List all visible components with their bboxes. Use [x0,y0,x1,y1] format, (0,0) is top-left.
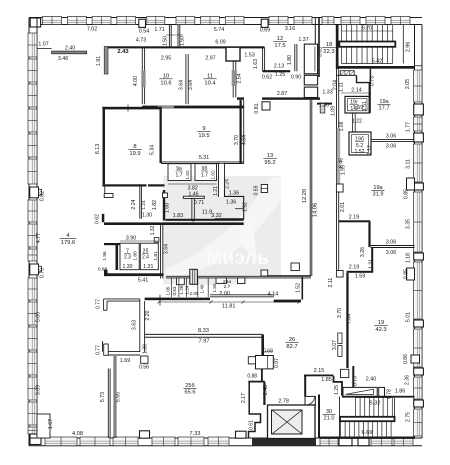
svg-text:2.05: 2.05 [405,79,411,89]
stairwell 18 treads [341,25,343,64]
svg-text:2.48: 2.48 [263,385,269,395]
wall 2.15 y375 [304,375,334,377]
room 1.67 box bottom-left [37,414,50,438]
svg-text:3.69: 3.69 [36,385,42,395]
room 12 interior wall 1.63 vertical [262,48,264,72]
wall A right of room 12 shafts [314,18,316,72]
svg-text:1.71: 1.71 [154,27,164,33]
svg-text:1.83: 1.83 [173,213,184,219]
svg-text:1.85: 1.85 [321,377,332,383]
wall y381 horizontal [248,381,264,383]
svg-text:3.64: 3.64 [179,80,185,90]
double partition 1.50 1.50 below top wall [168,25,170,47]
small vestibule box [341,369,349,377]
room 9 right wall 3.70 4.04 [240,100,242,164]
wall cross tick at x160 [159,295,161,306]
room 13 right wall 12.20 14.06 [309,100,311,276]
svg-text:Миэль: Миэль [206,247,269,269]
stairwell 18 bottom wall [338,66,415,69]
wall 0.81 box below [262,102,270,110]
svg-text:1.7: 1.7 [176,173,183,179]
closet corner notch box [104,194,113,198]
svg-text:1.50: 1.50 [180,36,186,46]
watermark logo swoosh [166,177,281,276]
svg-text:6.70: 6.70 [362,26,372,32]
svg-text:0.85: 0.85 [404,189,410,199]
svg-text:179.6: 179.6 [61,240,76,246]
svg-text:3.35: 3.35 [406,219,412,229]
svg-text:3.06: 3.06 [386,240,397,246]
wall 2.87 below room 12 [262,97,320,99]
top wall pillar 0.69 [261,19,268,27]
svg-text:1.46: 1.46 [188,192,198,198]
svg-text:2.19: 2.19 [349,215,360,221]
dim 2.14 line [341,92,371,94]
svg-text:2.78: 2.78 [278,399,289,405]
svg-text:5.41: 5.41 [138,278,149,284]
vestibule recess 0.73 [336,74,357,76]
door arc box left of room 30 [305,396,315,405]
closet left wall stub below room 8 [104,187,106,198]
svg-text:0.73: 0.73 [369,76,375,86]
svg-text:1.86: 1.86 [395,389,406,395]
corridor bottom wall left thick [145,298,210,301]
svg-text:1.51: 1.51 [362,101,368,111]
svg-text:17.7: 17.7 [379,106,390,112]
svg-text:0.86: 0.86 [403,354,409,364]
left stub to 5.41 wall [104,270,108,276]
svg-text:21.0: 21.0 [324,416,335,422]
svg-text:3.32: 3.32 [211,213,222,219]
svg-text:19.9: 19.9 [129,151,140,157]
corridor bottom wall left jog 0.77 double line [104,298,140,300]
svg-text:82.7: 82.7 [286,344,297,350]
outer right wall band with windows [414,25,416,439]
wall x261.5 y369-381 [261,369,263,382]
left wall pillar notch 0.79 [30,264,39,275]
wall 1.69 horizontal double line [104,351,140,353]
svg-text:0.69: 0.69 [260,28,270,34]
svg-text:1.63: 1.63 [253,59,259,69]
svg-text:5.01: 5.01 [406,312,412,322]
svg-text:31.9: 31.9 [373,192,384,198]
svg-text:1.68: 1.68 [165,203,171,213]
svg-text:1.12: 1.12 [367,145,373,155]
svg-text:1.59: 1.59 [355,274,366,280]
svg-text:1.36: 1.36 [229,191,240,197]
watermark gray background [163,176,281,277]
stairwell 18 left wall [336,25,339,70]
svg-text:0.78: 0.78 [387,389,393,399]
wall below 11.9 y219.5 [166,219,244,221]
svg-text:6.13: 6.13 [95,144,101,154]
wall 1.59 y272 [347,271,374,273]
svg-text:0.81: 0.81 [254,103,260,113]
svg-text:0.71: 0.71 [194,200,205,206]
svg-text:65.6: 65.6 [185,390,196,396]
svg-text:1.30: 1.30 [143,344,149,354]
pillar box at 1.69 wall left end [104,344,109,355]
wall between rooms 10 and 11 [185,54,187,104]
wall 2.20 3.63 vertical double line [139,299,141,352]
bottom wall stair pillar C [339,438,352,446]
svg-text:2.13: 2.13 [274,64,284,70]
svg-text:1.02: 1.02 [210,170,216,180]
svg-text:3.90: 3.90 [126,236,137,242]
svg-text:1.09: 1.09 [331,106,337,116]
lower stairs lower flight treads [340,421,342,436]
svg-text:3.70: 3.70 [337,308,343,318]
svg-text:0.88: 0.88 [247,374,257,380]
room 30 left wall [318,395,320,438]
svg-text:19.5: 19.5 [198,133,209,139]
svg-text:8.33: 8.33 [198,328,209,334]
svg-text:3.46: 3.46 [58,56,68,62]
room 19 left wall 3.70 7.04 [346,273,348,368]
svg-text:3.63: 3.63 [132,320,138,330]
bottom wall stair pillar D [358,438,369,446]
svg-text:10.4: 10.4 [204,80,216,86]
svg-text:2.14: 2.14 [351,88,362,94]
svg-text:2.08: 2.08 [190,291,199,296]
left stub wall above small rooms [104,243,120,245]
svg-text:0.97: 0.97 [274,358,280,368]
square notch on corridor wall [261,270,268,276]
svg-text:6.69: 6.69 [362,430,373,436]
svg-text:3.06: 3.06 [386,144,397,150]
small room 2.4 box [140,243,158,270]
dim line 3.82 with label [168,183,217,185]
step inner line [235,208,244,210]
svg-text:0.73: 0.73 [353,376,359,386]
svg-text:1.52: 1.52 [243,202,249,212]
room 10 left wall [141,48,143,104]
svg-text:3.64: 3.64 [163,244,169,254]
svg-text:1.49: 1.49 [200,284,205,293]
dim line 11.81 [159,301,299,303]
svg-text:1.08: 1.08 [339,121,345,131]
svg-text:7.33: 7.33 [190,431,201,437]
ramp box 2.40 [343,387,377,396]
svg-text:2.11: 2.11 [328,278,334,288]
svg-text:17.5: 17.5 [274,43,285,49]
svg-text:42.3: 42.3 [375,327,386,333]
svg-text:0.83: 0.83 [172,286,177,295]
svg-text:0.68: 0.68 [263,349,273,355]
svg-text:1.30: 1.30 [142,213,152,219]
room 9 bottom wall 5.31 [161,161,244,163]
corridor top wall 4.73 6.09 [106,46,265,48]
top-left corner pillar [30,18,40,27]
svg-text:1.30: 1.30 [319,103,329,109]
outer bottom wall band with windows [29,437,422,439]
svg-text:0.77: 0.77 [96,345,102,355]
right wall protruding pillar box middle [407,268,415,280]
room 25b left double wall [107,369,109,439]
svg-text:1.36: 1.36 [226,200,237,206]
svg-text:0.85: 0.85 [404,269,410,279]
main corridor wall y222.5 [104,222,244,225]
svg-text:1.50: 1.50 [212,283,217,292]
shaft column upper box [304,44,317,74]
svg-text:2.97: 2.97 [205,56,215,62]
svg-text:11.81: 11.81 [222,304,236,310]
room 8 bottom wall 3.72 with door gap [102,184,146,186]
gray wall segment 6.46 [337,128,340,192]
svg-text:1.31: 1.31 [143,264,153,270]
right wall small box near 0.86 [411,355,420,363]
svg-text:3.26: 3.26 [360,247,366,257]
svg-text:4.14: 4.14 [268,291,279,297]
room 26 top wall 7.97 double line [145,333,264,335]
corridor double wall between 19g and 19b [352,113,354,132]
svg-text:1.18: 1.18 [406,253,412,263]
svg-text:1.69: 1.69 [120,358,131,364]
svg-text:2.24: 2.24 [131,199,137,209]
svg-text:0.62: 0.62 [262,75,272,81]
WC small box [248,357,255,364]
svg-text:2.87: 2.87 [277,91,287,97]
svg-text:1.31: 1.31 [369,259,375,269]
svg-text:1.25: 1.25 [275,72,285,78]
left wall of small rooms [116,243,119,270]
room 12 left wall below pillar [232,61,234,98]
wall x305 y376-396 [304,376,306,397]
door jamb protrusion left [177,278,185,285]
svg-text:0.79: 0.79 [40,268,46,278]
svg-text:5.65: 5.65 [116,392,122,402]
svg-text:1.52: 1.52 [355,149,365,155]
svg-text:1.22: 1.22 [352,119,362,125]
partition gray bar 3.46 2.40 [52,51,87,54]
room 11.9 tee wall stem [192,198,194,220]
top wall pillar 0.54 [139,19,146,27]
lower stairs landing rail bar [340,417,395,421]
corridor bottom wall right thin [210,294,274,296]
svg-text:5.74: 5.74 [214,27,224,33]
svg-text:1.07: 1.07 [38,42,48,48]
svg-text:1.80: 1.80 [287,55,293,65]
svg-text:0.88: 0.88 [98,267,108,273]
svg-text:5.73: 5.73 [100,392,106,402]
svg-text:0.62: 0.62 [95,214,101,224]
svg-text:5.34: 5.34 [150,145,156,155]
stairwell 18 dim line 6.70 [342,30,393,32]
thin line 1.07 [37,48,52,50]
corridor threshold thick bar [274,300,301,303]
small box on left wall y271 [336,271,343,278]
svg-text:3.64: 3.64 [188,80,194,90]
svg-text:1.82: 1.82 [152,200,158,210]
svg-text:2.40: 2.40 [65,46,75,52]
wall 5.41 [104,273,164,276]
short wall 1.30 below stair entry [317,103,332,105]
svg-text:12.20: 12.20 [302,189,308,204]
wall x369 right of 19g [369,83,371,113]
wall y396 [342,396,415,398]
lower stairs left wall [339,397,341,438]
svg-text:22.3: 22.3 [323,49,334,55]
svg-text:1.02: 1.02 [185,170,191,180]
svg-text:3.70: 3.70 [234,135,240,145]
svg-text:3.06: 3.06 [386,134,397,140]
small white box on gray edge right [291,263,299,271]
small vertical box 1.32 [154,238,159,243]
svg-text:5.05: 5.05 [36,312,42,322]
bottom-left corner pillar [30,434,41,445]
svg-text:2.96: 2.96 [406,42,412,52]
svg-text:3.16: 3.16 [285,26,295,32]
svg-text:2.17: 2.17 [241,393,247,403]
svg-text:5.32: 5.32 [370,401,381,407]
svg-text:2.75: 2.75 [406,412,412,422]
svg-text:1.53: 1.53 [244,53,254,59]
room 8 left wall 6.13 [103,107,106,185]
svg-text:1.7: 1.7 [201,173,208,179]
room 12 wall 1.80 vertical pair [294,44,296,71]
closet below room 8 left wall [163,190,165,221]
wall x261.5 from 7.97 wall down [261,335,264,356]
svg-text:5.42: 5.42 [372,59,382,65]
room 8 top wall gray [102,107,161,110]
small hatched box at stair exit [340,71,354,76]
small room 9a box [168,164,191,181]
bottom wall of rooms 10 and 11 [142,106,243,109]
svg-text:1.32: 1.32 [150,225,156,235]
svg-text:1.81: 1.81 [153,251,159,261]
svg-text:1.50: 1.50 [163,36,169,46]
wall 0.62 stub [102,214,105,223]
svg-text:2.24: 2.24 [225,179,231,189]
svg-text:3.82: 3.82 [188,185,198,191]
step wall connecting to 2.87 wall [237,97,244,99]
svg-text:1.96: 1.96 [102,251,108,261]
svg-text:1.33: 1.33 [322,90,332,96]
small box on left wall y184 [336,184,343,192]
thin wall notch to x311 [268,274,311,276]
closet right double wall [139,187,141,219]
stairwell 18 landing rail bar [339,42,395,47]
outer top wall band with windows [29,17,422,19]
svg-text:3.06: 3.06 [386,250,397,256]
hatched flue right of wall A [320,104,325,114]
svg-text:1.30: 1.30 [122,264,132,270]
svg-text:1.91: 1.91 [96,56,102,66]
svg-text:4.73: 4.73 [136,38,146,44]
box 0.56 [141,356,148,363]
svg-text:2.43: 2.43 [117,49,129,55]
svg-text:2.36: 2.36 [405,375,411,385]
bottom wall pillar box B [236,431,247,438]
corridor partition verticals [171,278,173,297]
svg-text:2.40: 2.40 [366,377,377,383]
svg-text:4.04: 4.04 [242,135,248,145]
svg-text:5.31: 5.31 [199,155,209,161]
svg-text:1.37: 1.37 [298,37,308,43]
svg-text:4.08: 4.08 [72,431,83,437]
svg-text:1.11: 1.11 [339,82,345,92]
dim 0.68 line [262,351,273,353]
svg-text:95.2: 95.2 [264,160,275,166]
svg-text:0.82: 0.82 [40,191,46,201]
svg-text:3.63: 3.63 [318,47,324,57]
svg-text:4.00: 4.00 [133,76,139,86]
radiator gray segment in bottom wall [158,106,174,108]
svg-text:7.97: 7.97 [199,338,210,344]
svg-text:2.54: 2.54 [237,73,243,83]
wall left of elevator 2.48 [263,382,265,405]
svg-text:0.54: 0.54 [139,29,149,35]
lower stairs landing right line [394,398,396,417]
svg-text:3.07: 3.07 [332,340,338,350]
door jamb protrusion right [238,278,245,284]
svg-text:4.77: 4.77 [36,233,42,243]
svg-text:1.21: 1.21 [213,186,219,196]
bottom wall pillar box A [140,431,150,438]
wall 3.06 lower double [371,245,415,247]
svg-text:1.95: 1.95 [341,165,347,175]
svg-text:2.00: 2.00 [219,291,230,297]
corridor right end wall [302,277,304,300]
room 19g box [345,96,369,113]
step wall 1.85 1.25 [334,376,343,396]
step wall 1.36 1.36 [215,190,244,219]
svg-text:2.01: 2.01 [340,202,346,212]
door jamb protrusion middle [216,278,227,284]
wall 2.17 vertical with 0.61 zigzag [249,382,261,439]
wall stub above 1.69 wall [102,341,104,352]
svg-text:2.15: 2.15 [314,368,325,374]
double wall right of small rooms [160,225,162,279]
svg-text:0.77: 0.77 [95,299,101,309]
svg-text:10.6: 10.6 [160,80,171,86]
svg-text:2.4: 2.4 [142,255,149,261]
elevator enclosure [268,405,316,439]
small box 0.78 [379,387,385,396]
dim line 3.90 [120,240,158,242]
svg-text:1.67: 1.67 [48,419,54,429]
wall 3.06 upper double [371,139,415,141]
room 10 left wall radiator gray [141,71,145,88]
wall between rooms 8 and 9 [160,107,162,163]
svg-text:7.02: 7.02 [87,27,97,33]
svg-text:1.05: 1.05 [166,286,171,295]
small room 2.3 box [120,243,139,270]
svg-text:14.06: 14.06 [313,203,319,218]
wall x369 y222-247 [368,222,370,247]
WC fixture box [256,356,274,369]
flue box [190,269,198,284]
svg-text:0.56: 0.56 [139,365,149,371]
wall tick cross on room 8 top wall [127,105,129,112]
room 19b box [349,132,371,155]
shaft cavity double wall below 9b [218,163,220,197]
room 12 left wall radiator gray [232,70,237,86]
small box 0.59 [261,185,267,193]
outer left wall band with windows [28,18,30,447]
left wall pillar notch 0.82 [30,187,39,198]
svg-text:0.90: 0.90 [291,75,301,81]
wall 0.73 x353 [352,366,354,388]
svg-text:2.19: 2.19 [349,265,360,271]
small room 9b box [195,164,217,181]
wall x372 y247-272 [371,248,373,273]
room 12 left big pillar [226,47,240,61]
pilaster boxes on room 26 right [338,333,342,344]
svg-text:0.61: 0.61 [248,420,254,430]
stairwell 18 inner landing line [402,25,404,64]
shaft column middle box [304,75,317,85]
